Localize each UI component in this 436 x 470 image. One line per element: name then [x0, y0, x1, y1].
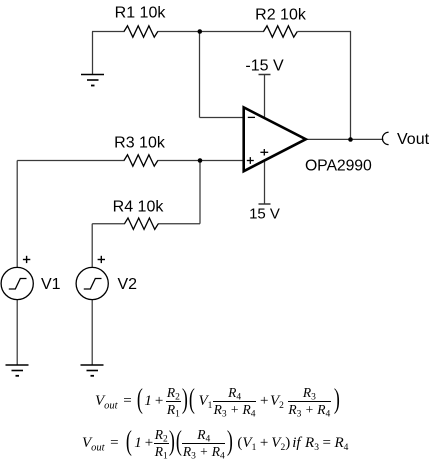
wire: negative supply pin — [264, 75, 266, 118]
wire: right vertical feedback down to output node — [350, 31, 352, 140]
wire: node B to non-inverting input — [200, 160, 243, 162]
wire: op-amp output to Vout terminal — [307, 138, 383, 140]
power terminal -15V bar — [259, 74, 271, 76]
svg-text:V2: V2 — [118, 276, 138, 293]
resistor R2 — [264, 26, 298, 37]
ground (V2) — [81, 365, 104, 376]
V1 plus polarity mark — [23, 256, 30, 263]
op-amp inverting input minus sign — [248, 116, 255, 118]
wire: V2 bottom to ground — [91, 299, 93, 365]
voltage source V2 — [76, 267, 108, 299]
svg-text:15 V: 15 V — [249, 205, 280, 222]
Vout terminal open circle — [382, 132, 388, 144]
wire: node B down to R4 level — [199, 161, 201, 224]
resistor R4 — [125, 218, 159, 229]
node A junction dot (R1/R2) — [198, 29, 203, 34]
wire: V2 corner to R4 left lead — [92, 223, 125, 225]
svg-text:Vout: Vout — [397, 131, 430, 148]
wire: V1 bottom to ground — [16, 299, 18, 365]
op-amp non-inverting input plus sign — [247, 157, 254, 164]
wire: R3 right lead to node B — [158, 160, 201, 162]
wire: ground corner to R1 left lead — [92, 31, 125, 33]
svg-text:-15 V: -15 V — [245, 57, 284, 74]
wire: R2 right lead to top-right corner — [298, 31, 352, 33]
svg-text:R2 10k: R2 10k — [255, 7, 307, 24]
voltage source V1 — [1, 267, 33, 299]
svg-text:R1 10k: R1 10k — [115, 4, 167, 21]
wire: node A down to inverting level — [199, 32, 201, 118]
formula line 1: Vout = (1 + R2/R1)(V1 R4/(R3+R4) + V2 R3/(R3+R4)) — [95, 387, 340, 415]
ground (V1) — [6, 365, 29, 376]
svg-text:R4 10k: R4 10k — [113, 198, 165, 215]
wire: positive supply pin — [264, 161, 266, 204]
svg-text:OPA2990: OPA2990 — [305, 158, 372, 175]
V2 plus polarity mark — [98, 256, 105, 263]
wire: top ground up to R1 lead — [92, 32, 94, 75]
op-amp positive supply plus sign — [260, 149, 268, 156]
power terminal 15V bar — [259, 203, 271, 205]
op-amp U1 triangle — [244, 107, 306, 171]
wire: V1 top corner to R3 left lead — [17, 160, 124, 162]
output node junction dot — [348, 137, 353, 142]
wire: V1 vertical down to source — [16, 161, 18, 268]
wire: node A to R2 left lead — [200, 31, 264, 33]
wire: into inverting input of op-amp — [200, 117, 244, 119]
ground (top, R1) — [81, 75, 104, 86]
wire: R4 right lead up to node B branch — [158, 223, 200, 225]
wire: R1 right lead to node A — [158, 31, 201, 33]
svg-text:R3 10k: R3 10k — [114, 135, 166, 152]
formula line 2: Vout = (1 + R2/R1)(R4/(R3+R4))(V1 + V2) if R3 = R4 — [82, 429, 348, 457]
node B junction dot (R3/R4) — [198, 158, 203, 163]
resistor R3 — [124, 155, 158, 166]
svg-text:V1: V1 — [41, 276, 61, 293]
resistor R1 — [124, 26, 158, 37]
wire: V2 top vertical — [91, 224, 93, 268]
